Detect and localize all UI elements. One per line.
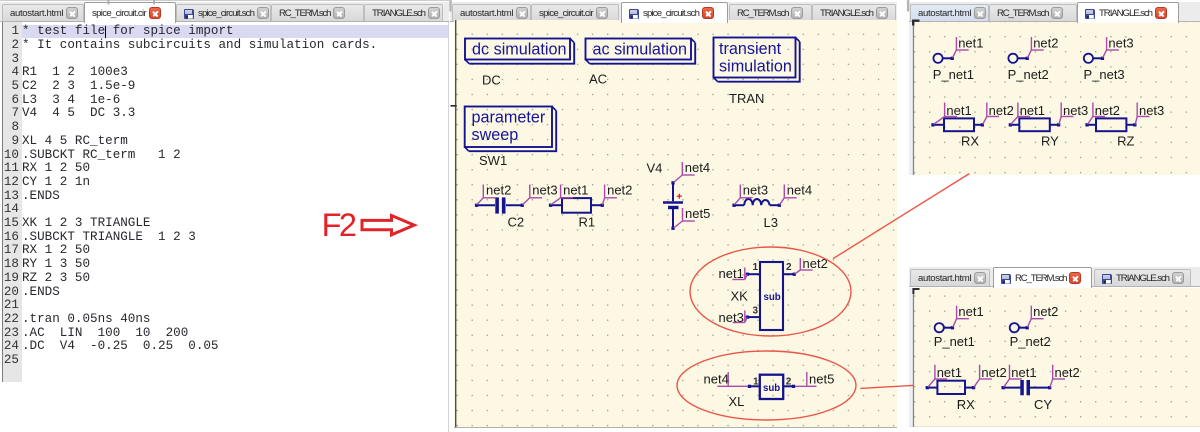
svg-text:net2: net2 bbox=[981, 365, 1006, 380]
frame corner mark, top-right panel bbox=[913, 21, 919, 26]
node: XL pin 1 bbox=[748, 384, 751, 387]
net label flag: net4 at L3.2 bbox=[780, 184, 797, 204]
node: RX left terminal bbox=[931, 123, 934, 126]
svg-text:net1: net1 bbox=[563, 182, 588, 197]
svg-text:R1: R1 bbox=[579, 214, 596, 229]
svg-text:AC: AC bbox=[589, 71, 607, 86]
net label flag: net2 at CY.2 bbox=[1050, 364, 1065, 386]
node: RX right terminal bbox=[972, 386, 975, 389]
svg-text:sweep: sweep bbox=[472, 126, 519, 144]
net label flag: net5 at V4.- bbox=[674, 208, 695, 228]
F2 block arrow bbox=[362, 216, 414, 235]
red ellipse around XL bbox=[677, 351, 856, 420]
node: CY left terminal bbox=[1002, 386, 1005, 389]
current line highlight bbox=[21, 25, 448, 39]
texts (top right) bbox=[933, 35, 1164, 148]
canvas background bbox=[454, 20, 897, 428]
node: V4 top terminal (net4) bbox=[671, 181, 674, 184]
magenta net flags (bottom right) bbox=[928, 305, 1065, 386]
svg-text:net3: net3 bbox=[532, 182, 557, 197]
svg-text:net5: net5 bbox=[809, 371, 834, 386]
ac simulation box bbox=[586, 38, 696, 63]
node: CY right terminal bbox=[1048, 386, 1051, 389]
bottom edge line bbox=[909, 427, 1200, 428]
svg-text:transient: transient bbox=[719, 40, 782, 58]
svg-text:net4: net4 bbox=[685, 160, 710, 175]
resistor RZ bbox=[1087, 118, 1135, 131]
svg-text:net3: net3 bbox=[1063, 102, 1088, 117]
svg-text:net5: net5 bbox=[685, 206, 710, 221]
net label flag: net4 at V4.+ bbox=[674, 162, 695, 182]
wire end dots (bottom right) bbox=[926, 326, 1052, 389]
node: P_net2 terminal bbox=[1026, 326, 1029, 329]
port P_net1 (bottom) bbox=[935, 323, 953, 332]
middle schematic canvas placeholder bbox=[454, 20, 897, 428]
texts (bottom right) bbox=[934, 304, 1080, 412]
svg-text:XL: XL bbox=[729, 394, 745, 409]
svg-text:simulation: simulation bbox=[719, 57, 792, 75]
top strip marks bbox=[0, 0, 449, 1]
svg-text:P_net2: P_net2 bbox=[1008, 66, 1049, 81]
magenta net flags (top right) bbox=[934, 36, 1150, 123]
svg-text:net3: net3 bbox=[1139, 102, 1164, 117]
capacitor C2 bbox=[477, 204, 523, 206]
frame corner mark, bottom-right panel bbox=[913, 289, 919, 294]
port P_net2 (bottom) bbox=[1010, 323, 1027, 332]
net label flag: net3 at P_net3 bbox=[1103, 36, 1119, 57]
transient simulation box bbox=[714, 37, 800, 81]
svg-text:net3: net3 bbox=[743, 182, 768, 197]
node: V4 bottom terminal (net5) bbox=[671, 226, 674, 229]
node: RY left terminal bbox=[1009, 123, 1012, 126]
splitter tick, middle panel left edge bbox=[451, 105, 457, 107]
subcircuit XL bbox=[750, 374, 794, 398]
node: P_net1 terminal bbox=[951, 56, 954, 59]
node: RZ left terminal bbox=[1085, 123, 1088, 126]
node: RY right terminal bbox=[1057, 123, 1060, 126]
svg-text:CY: CY bbox=[1034, 397, 1052, 412]
net label flag: net2 at R1.2 bbox=[602, 184, 617, 204]
dc simulation box bbox=[465, 38, 574, 63]
subcircuit XK bbox=[748, 262, 795, 330]
net label flag: net3 at XK.3 bbox=[733, 310, 748, 322]
svg-text:2: 2 bbox=[786, 376, 792, 387]
svg-text:net1: net1 bbox=[1020, 102, 1045, 117]
left tab bar bbox=[0, 2, 449, 22]
svg-text:net2: net2 bbox=[803, 256, 828, 271]
voltage source V4 bbox=[663, 182, 683, 227]
svg-text:net1: net1 bbox=[937, 365, 962, 380]
inductor L3 bbox=[734, 199, 779, 205]
svg-text:net3: net3 bbox=[1108, 35, 1133, 50]
svg-text:net1: net1 bbox=[958, 35, 983, 50]
svg-text:RX: RX bbox=[957, 397, 975, 412]
node: XL pin 2 bbox=[792, 384, 795, 387]
net label flag: net1 at P_net1 bbox=[953, 36, 969, 57]
red ellipse around XK bbox=[690, 247, 851, 336]
node: L3 right terminal bbox=[778, 203, 781, 206]
red callout line XL to RC_TERM panel bbox=[860, 385, 913, 388]
svg-text:ac simulation: ac simulation bbox=[593, 40, 687, 58]
svg-text:net1: net1 bbox=[719, 266, 744, 281]
svg-text:net2: net2 bbox=[989, 102, 1014, 117]
net label flag: net2 at RX.2 bbox=[974, 364, 992, 386]
editor body bbox=[0, 22, 449, 432]
svg-text:net2: net2 bbox=[1095, 102, 1120, 117]
net label flag: net1 at RY.1 bbox=[1011, 102, 1030, 124]
net label flag: net5 at XL.2 bbox=[795, 372, 816, 386]
node: RZ right terminal bbox=[1133, 123, 1136, 126]
svg-text:V4: V4 bbox=[647, 160, 663, 175]
net label flag: net1 at XK.1 bbox=[733, 267, 748, 279]
resistor RY bbox=[1010, 118, 1058, 131]
svg-text:L3: L3 bbox=[764, 215, 778, 230]
svg-text:net1: net1 bbox=[958, 304, 983, 319]
resistor RX bbox=[933, 118, 982, 131]
svg-text:3: 3 bbox=[753, 305, 759, 316]
wire end dots (top right) bbox=[931, 56, 1136, 126]
svg-text:P_net1: P_net1 bbox=[933, 66, 974, 81]
node: P_net2 terminal bbox=[1026, 56, 1029, 59]
node: XK pin 1 bbox=[746, 272, 749, 275]
capacitor plates C2 bbox=[495, 197, 505, 213]
svg-text:P_net2: P_net2 bbox=[1010, 334, 1051, 349]
net label flag: net3 at RZ.2 bbox=[1135, 102, 1149, 124]
port P_net3 bbox=[1084, 53, 1102, 62]
node: RX right terminal bbox=[981, 123, 984, 126]
net label flag: net3 at L3.1 bbox=[734, 184, 752, 204]
svg-text:1: 1 bbox=[753, 262, 759, 273]
net label flag: net3 at RY.2 bbox=[1059, 102, 1074, 124]
net label flag: net1 at P_net1 bbox=[953, 305, 969, 326]
net label flag: net2 at P_net2 bbox=[1028, 36, 1044, 57]
node: R1 left terminal bbox=[549, 203, 552, 206]
capacitor CY bbox=[1003, 386, 1049, 388]
net label flag: net2 at P_net2 bbox=[1028, 305, 1044, 326]
texts (middle) bbox=[472, 40, 792, 144]
net label flag: net1 at RX.1 bbox=[928, 364, 947, 386]
svg-text:net3: net3 bbox=[719, 310, 744, 325]
node: XK pin 2 bbox=[793, 272, 796, 275]
svg-text:RX: RX bbox=[961, 133, 979, 148]
net label flag: net2 at RZ.1 bbox=[1087, 102, 1105, 124]
magenta net flags (middle) bbox=[477, 162, 817, 386]
svg-text:C2: C2 bbox=[508, 214, 525, 229]
node: L3 left terminal bbox=[732, 203, 735, 206]
capacitor CY plates bbox=[1020, 380, 1030, 395]
wire end dots (middle) bbox=[475, 181, 796, 388]
left border bbox=[913, 22, 914, 175]
red callout line XK to TRIANGLE panel bbox=[833, 174, 969, 259]
svg-text:sub: sub bbox=[763, 383, 780, 394]
net label flag: net1 at RX.1 bbox=[934, 102, 957, 124]
svg-text:net2: net2 bbox=[607, 182, 632, 197]
svg-text:net4: net4 bbox=[787, 182, 812, 197]
resistor RX (bottom) bbox=[927, 380, 973, 393]
net label flag: net3 at C2.2 bbox=[523, 184, 543, 204]
bottom edge line bbox=[454, 427, 897, 428]
svg-text:RY: RY bbox=[1041, 133, 1059, 148]
port P_net2 bbox=[1008, 53, 1027, 62]
left panel border bbox=[455, 20, 456, 428]
svg-text:net4: net4 bbox=[704, 371, 729, 386]
svg-text:sub: sub bbox=[764, 291, 781, 302]
svg-text:net2: net2 bbox=[1033, 35, 1058, 50]
port P_net1 bbox=[933, 53, 952, 62]
svg-text:P_net1: P_net1 bbox=[934, 334, 975, 349]
svg-text:parameter: parameter bbox=[472, 108, 546, 126]
node: XK pin 3 bbox=[746, 315, 749, 318]
net label flag: net2 at C2.1 bbox=[477, 184, 496, 204]
left border bbox=[913, 288, 914, 428]
gutter bbox=[2, 22, 22, 382]
parameter sweep box bbox=[465, 106, 557, 151]
svg-text:dc simulation: dc simulation bbox=[472, 40, 566, 58]
svg-text:XK: XK bbox=[731, 288, 749, 303]
svg-text:RZ: RZ bbox=[1117, 133, 1134, 148]
text cursor bbox=[105, 26, 106, 38]
svg-text:P_net3: P_net3 bbox=[1083, 66, 1124, 81]
svg-text:net2: net2 bbox=[1033, 304, 1058, 319]
svg-text:TRAN: TRAN bbox=[729, 91, 764, 106]
node: C2 left terminal bbox=[475, 203, 478, 206]
svg-text:net1: net1 bbox=[946, 102, 971, 117]
net label flag: net1 at CY.1 bbox=[1004, 364, 1022, 386]
node: P_net3 terminal bbox=[1101, 56, 1104, 59]
svg-text:SW1: SW1 bbox=[479, 153, 507, 168]
svg-text:DC: DC bbox=[482, 72, 501, 87]
net label flag: net4 at XL.1 bbox=[717, 372, 748, 386]
net label flag: net2 at XK.2 bbox=[795, 258, 813, 274]
net label flag: net1 at R1.1 bbox=[551, 184, 573, 204]
svg-text:2: 2 bbox=[786, 262, 792, 273]
svg-text:net1: net1 bbox=[1011, 365, 1036, 380]
svg-text:net2: net2 bbox=[1055, 365, 1080, 380]
node: R1 right terminal bbox=[601, 203, 604, 206]
node: C2 right terminal bbox=[521, 203, 524, 206]
red plus of V4 bbox=[677, 193, 682, 198]
svg-text:net2: net2 bbox=[486, 182, 511, 197]
resistor R1 bbox=[551, 198, 603, 213]
svg-text:1: 1 bbox=[753, 376, 759, 387]
node: RX left terminal bbox=[926, 386, 929, 389]
node: P_net1 terminal bbox=[951, 326, 954, 329]
net label flag: net2 at RX.2 bbox=[983, 102, 999, 124]
